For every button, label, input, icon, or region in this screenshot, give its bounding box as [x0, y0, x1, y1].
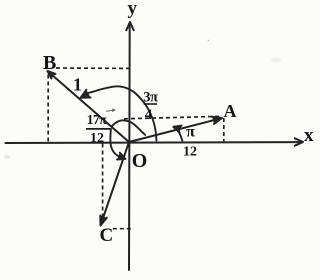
svg-text:π: π [186, 124, 195, 141]
speck [4, 155, 10, 159]
x-axis [6, 141, 303, 144]
svg-text:B: B [43, 52, 56, 74]
svg-text:C: C [100, 225, 114, 246]
arc 17pi/12 curl to C [110, 129, 124, 159]
fraction bar 3pi/4 [144, 103, 157, 105]
dashed projection B vertical [47, 75, 49, 143]
dashed projection A horizontal [124, 116, 222, 119]
svg-text:1: 1 [73, 75, 82, 95]
svg-text:12: 12 [183, 145, 197, 160]
dashed projection C vertical [102, 144, 104, 224]
dashed projection C horizontal [113, 228, 132, 230]
vector OA [129, 118, 222, 142]
fraction bar 17pi/12 [86, 128, 111, 130]
svg-text:17π: 17π [87, 112, 108, 127]
tiny arrow mark above 17pi [106, 109, 115, 112]
svg-text:y: y [128, 0, 138, 19]
speck [162, 112, 164, 114]
dashed projection B horizontal [56, 67, 129, 69]
dashed projection A vertical [223, 118, 225, 142]
svg-text:3π: 3π [143, 89, 158, 105]
svg-text:12: 12 [90, 131, 104, 146]
svg-text:O: O [132, 150, 148, 172]
y-axis [128, 23, 131, 270]
arc angle 17pi/12 inner [112, 120, 145, 135]
speck [208, 40, 210, 42]
svg-text:4: 4 [145, 107, 153, 123]
vector OB [48, 72, 129, 142]
arc angle pi/12 [175, 126, 183, 140]
svg-text:x: x [304, 125, 314, 146]
arc angle 3pi/4 spiral [85, 86, 157, 140]
vector OC [101, 142, 129, 224]
svg-text:A: A [224, 101, 237, 121]
speck [271, 58, 281, 63]
